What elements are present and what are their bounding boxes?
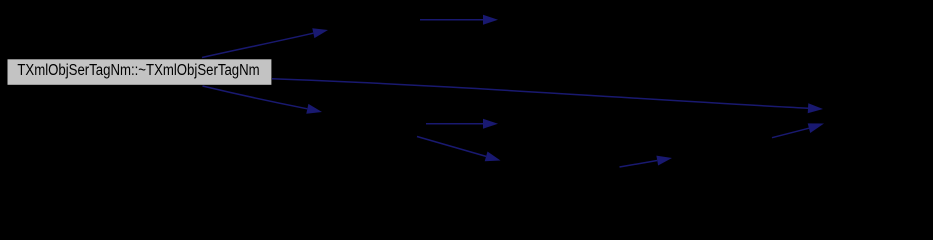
edge D: node5 -> node6 (short up-right) <box>620 156 673 167</box>
edge A2: node1 -> node2 (horizontal, top) <box>420 15 498 25</box>
edge E: node6 -> right node (up-right) <box>772 123 824 137</box>
edge C2: node3 -> node4 (horizontal, middle) <box>426 119 498 129</box>
svg-text:TXmlObjSerTagNm::~TXmlObjSerTa: TXmlObjSerTagNm::~TXmlObjSerTagNm <box>17 62 259 79</box>
node: TXmlObjSerTagNm::~TXmlObjSerTagNm (root, filled grey) <box>7 59 272 86</box>
edge C3: node3 -> node5 (down-right diagonal) <box>417 137 501 162</box>
edge C: root -> node3 (down-right) <box>203 86 323 114</box>
edge B: root -> right node (long shallow diagonal) <box>272 79 823 113</box>
edge A: root -> node1 (up-right) <box>202 28 328 57</box>
